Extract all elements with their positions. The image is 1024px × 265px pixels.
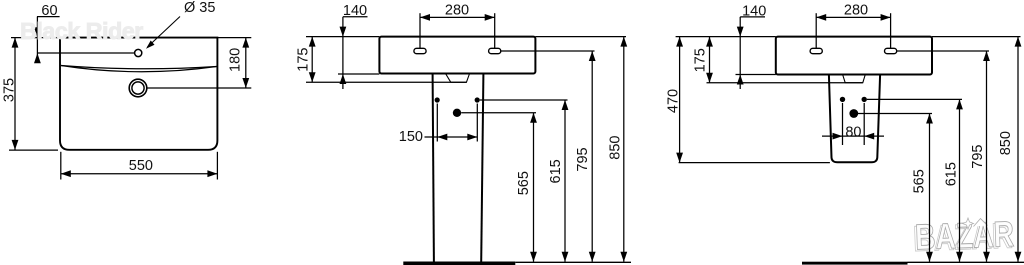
svg-text:140: 140 bbox=[742, 4, 766, 20]
dimension 280 (right) bbox=[816, 13, 890, 48]
svg-text:850: 850 bbox=[998, 131, 1014, 155]
svg-text:175: 175 bbox=[296, 47, 312, 71]
rim level extension left bbox=[306, 36, 379, 38]
dimension 80 bbox=[822, 103, 884, 145]
semi-pedestal bottom extension bbox=[679, 162, 830, 164]
dimension 175 (right) bbox=[706, 37, 713, 83]
fixing bolt hole left (right view) bbox=[840, 97, 845, 102]
drain hole inner bbox=[132, 82, 144, 94]
svg-text:Ø 35: Ø 35 bbox=[184, 0, 215, 16]
dimension 175 (middle) bbox=[309, 37, 316, 83]
fixing bolt hole right (right view) bbox=[862, 97, 867, 102]
basin inner rim curve upper bbox=[61, 66, 217, 69]
tap hole level extension (right view) bbox=[896, 50, 989, 52]
svg-text:80: 80 bbox=[845, 124, 861, 140]
pedestal right edge bbox=[481, 74, 483, 262]
dimension 140 (right) bbox=[737, 17, 765, 89]
pedestal left edge bbox=[433, 74, 434, 262]
basin front outline (semi-pedestal version) bbox=[776, 37, 932, 75]
svg-text:280: 280 bbox=[445, 3, 469, 19]
faucet hole centerline bbox=[37, 52, 134, 54]
floor slab (right view) bbox=[802, 262, 908, 265]
dimension 565 (right) bbox=[926, 114, 933, 262]
basin bottom extension left (right view) bbox=[736, 74, 776, 76]
outlet level extension (right view) bbox=[858, 113, 932, 115]
dimension 180 bbox=[147, 38, 252, 88]
svg-text:280: 280 bbox=[844, 3, 868, 19]
dimension 615 (right) bbox=[956, 99, 963, 261]
svg-text:Black Rider: Black Rider bbox=[20, 18, 143, 44]
waste outlet dot bbox=[453, 109, 461, 117]
dimension 470 bbox=[676, 37, 683, 163]
svg-text:470: 470 bbox=[666, 89, 682, 113]
basin plan outline bbox=[60, 38, 217, 150]
dimension 850 (middle) bbox=[620, 37, 627, 262]
bolt level extension line bbox=[480, 99, 568, 101]
fixing bolt hole left bbox=[435, 97, 440, 102]
svg-text:60: 60 bbox=[41, 3, 57, 19]
tap hole slot left bbox=[414, 48, 426, 53]
tap hole slot left (right view) bbox=[810, 48, 822, 53]
basin inner rim curve lower bbox=[61, 66, 217, 72]
svg-text:150: 150 bbox=[399, 129, 423, 145]
dimension 615 (middle) bbox=[562, 100, 569, 262]
dimension 150 (middle) bbox=[425, 104, 478, 142]
dimension 140 (middle) bbox=[340, 17, 368, 89]
ceramic lip extension line bbox=[306, 81, 466, 83]
svg-text:140: 140 bbox=[343, 3, 367, 19]
dimension 565 (middle) bbox=[530, 113, 537, 262]
dimension 280 (middle) bbox=[420, 13, 495, 48]
svg-text:175: 175 bbox=[692, 48, 708, 72]
BAZAR watermark bbox=[912, 213, 1014, 259]
dimension 60 bbox=[34, 17, 60, 64]
dimension 795 (right) bbox=[983, 51, 990, 262]
svg-text:615: 615 bbox=[548, 159, 564, 183]
svg-text:615: 615 bbox=[943, 162, 959, 186]
bolt level extension (right view) bbox=[867, 98, 962, 100]
siphon recess under basin (right view) bbox=[843, 75, 866, 83]
fixing bolt hole right bbox=[475, 97, 480, 102]
svg-text:850: 850 bbox=[607, 135, 623, 159]
svg-text:565: 565 bbox=[912, 169, 928, 193]
svg-text:375: 375 bbox=[1, 78, 17, 102]
dimension 550 bbox=[61, 152, 218, 180]
dimension 795 (middle) bbox=[589, 51, 596, 262]
tap hole slot right (right view) bbox=[885, 48, 897, 53]
tap hole slot right bbox=[489, 48, 501, 53]
leader line for diameter 35 bbox=[148, 17, 181, 48]
waste outlet dot (right view) bbox=[849, 109, 858, 118]
drain hole outer bbox=[129, 79, 147, 97]
rim level extension left (right view) bbox=[676, 36, 776, 38]
semi-pedestal outline bbox=[829, 75, 880, 163]
siphon recess under basin bbox=[446, 74, 470, 82]
rim level extension right bbox=[535, 36, 626, 38]
tap hole level extension line bbox=[500, 50, 594, 52]
svg-text:565: 565 bbox=[516, 171, 532, 195]
rim level extension right (right view) bbox=[932, 36, 1021, 38]
basin front outline (pedestal version) bbox=[379, 37, 535, 74]
basin bottom extension left bbox=[338, 73, 379, 75]
ceramic lip extension (right view) bbox=[707, 82, 863, 84]
svg-text:795: 795 bbox=[970, 144, 986, 168]
svg-text:180: 180 bbox=[228, 48, 244, 72]
svg-text:550: 550 bbox=[129, 158, 153, 174]
dimension 375 bbox=[9, 38, 59, 151]
svg-text:795: 795 bbox=[575, 147, 591, 171]
outlet level extension line bbox=[461, 112, 536, 114]
pedestal base plate bbox=[403, 262, 515, 265]
dimension 850 (right) bbox=[1015, 37, 1022, 262]
faucet hole bbox=[135, 49, 142, 56]
floor line (middle view) bbox=[515, 261, 631, 263]
floor line (right view) bbox=[908, 261, 1024, 263]
